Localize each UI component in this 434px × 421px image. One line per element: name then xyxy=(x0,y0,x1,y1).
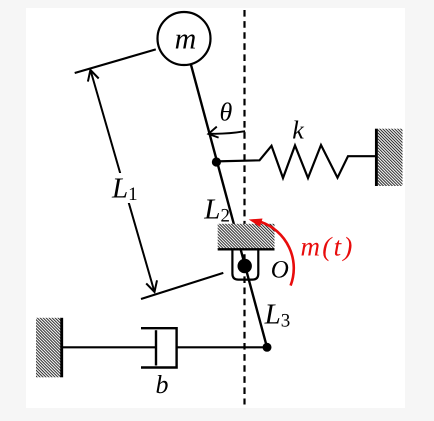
node: damper attachment on rod xyxy=(263,343,272,352)
dimension L1 arrow line xyxy=(90,70,154,292)
dimension L1 arrowhead top xyxy=(88,70,99,82)
dimension L1 extension tick (bottom, toward pivot) xyxy=(141,273,223,299)
node: spring attachment on rod xyxy=(212,157,221,166)
damper piston plate xyxy=(155,330,157,365)
svg-text:θ: θ xyxy=(220,98,233,127)
svg-text:m: m xyxy=(175,23,197,56)
spring k zigzag xyxy=(216,145,375,178)
dimension L1 arrowhead bottom xyxy=(146,280,157,292)
label L1 xyxy=(108,172,140,205)
applied moment m(t) red arc arrow xyxy=(249,219,294,286)
mass m circle xyxy=(158,12,211,65)
svg-text:k: k xyxy=(292,116,304,145)
pivot mount hatched block xyxy=(218,224,275,250)
angle theta arc with arrowhead xyxy=(208,127,245,138)
dimension L1 extension tick (top, through mass center) xyxy=(75,49,156,73)
vertical reference line (dashed) xyxy=(243,10,245,405)
pivot bracket xyxy=(232,249,258,279)
damper rod left segment xyxy=(63,346,156,348)
svg-text:m(t): m(t) xyxy=(301,232,355,262)
left wall anchor plate xyxy=(36,318,62,378)
damper rod right segment xyxy=(177,346,267,348)
svg-text:O: O xyxy=(271,256,289,283)
pendulum rod xyxy=(191,64,267,347)
right wall anchor plate xyxy=(376,129,402,186)
damper cylinder b xyxy=(141,328,177,367)
pivot pin O xyxy=(238,259,252,273)
svg-text:b: b xyxy=(156,370,169,399)
